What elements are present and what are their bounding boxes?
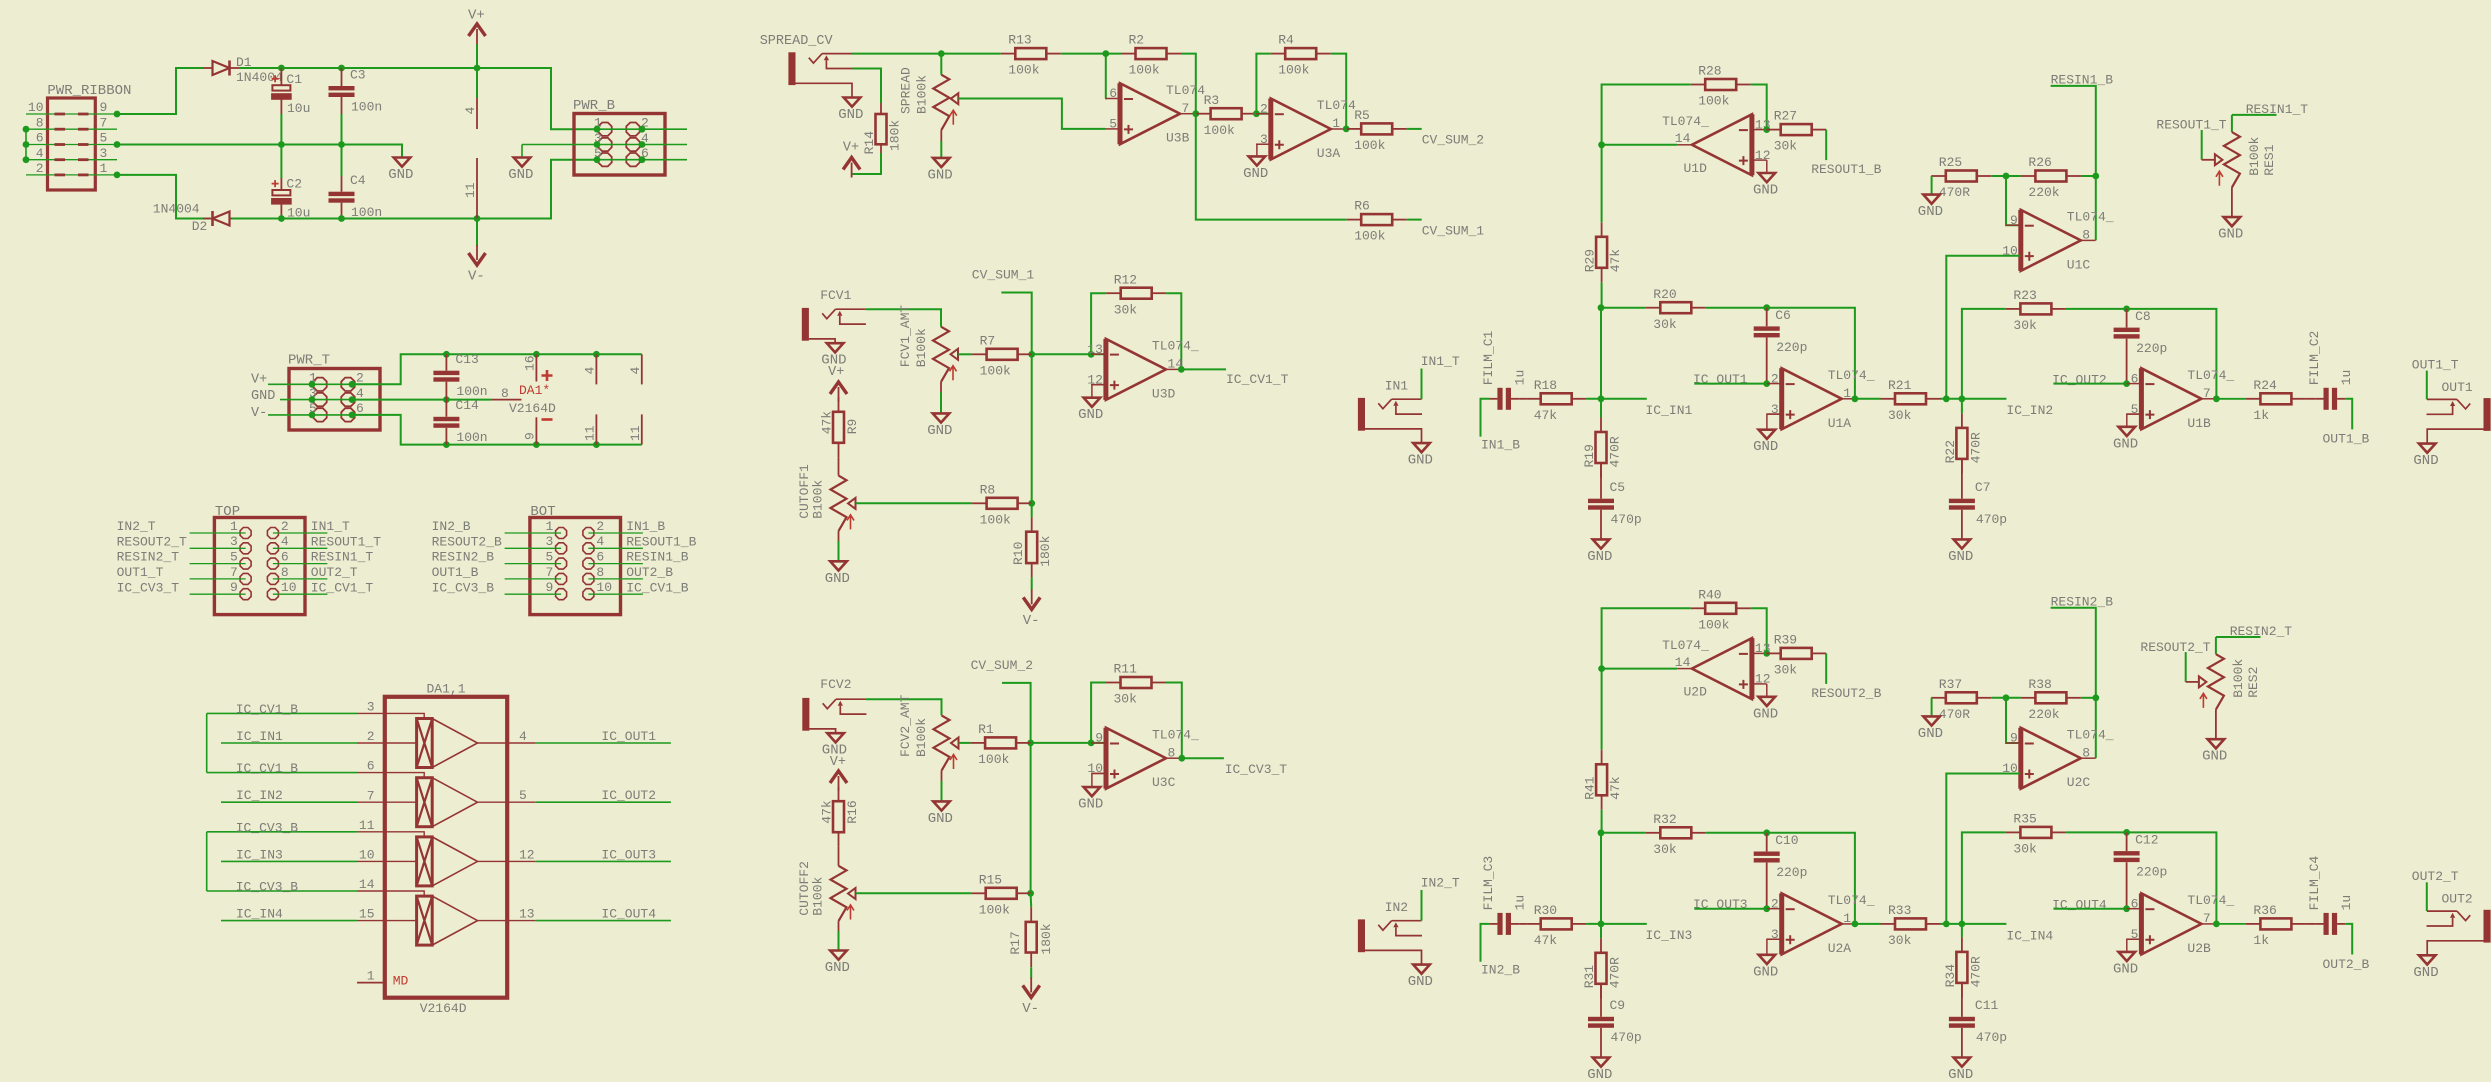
wire IC_OUT1 <box>536 742 671 744</box>
svg-text:30k: 30k <box>1774 139 1798 154</box>
svg-text:R7: R7 <box>980 333 996 348</box>
wire rail to TL074 pin4 stub <box>476 68 478 98</box>
svg-text:GND: GND <box>1078 797 1103 813</box>
svg-text:470R: 470R <box>1939 185 1970 200</box>
svg-text:GND: GND <box>2113 961 2138 977</box>
wire pot to gnd <box>2215 710 2217 740</box>
svg-text:IC_CV1_B: IC_CV1_B <box>626 580 689 595</box>
svg-text:U2B: U2B <box>2187 941 2211 956</box>
resistor R17 180k <box>1030 907 1032 922</box>
svg-text:3: 3 <box>230 534 238 549</box>
svg-text:R16: R16 <box>845 800 860 823</box>
svg-text:IC_IN4: IC_IN4 <box>2006 928 2053 943</box>
wire to IC_IN_b junction <box>1941 923 2007 925</box>
supply V+ <box>830 382 847 394</box>
resistor R10 180k <box>1031 517 1033 531</box>
connector jack FCV1 <box>802 308 809 341</box>
wire R12 feedback left <box>1091 293 1106 354</box>
svg-text:R19: R19 <box>1582 444 1597 467</box>
resistor R35 30k <box>2006 831 2021 833</box>
svg-text:U2C: U2C <box>2067 775 2091 790</box>
svg-text:12: 12 <box>1755 148 1771 163</box>
capacitor C8 220p <box>2114 328 2140 332</box>
wire pin10 left down <box>1946 256 2020 399</box>
VCA cell 2 <box>417 778 433 827</box>
wire junction up to integrator row <box>1600 308 1602 399</box>
svg-text:R3: R3 <box>1204 93 1220 108</box>
svg-text:7: 7 <box>230 565 238 580</box>
svg-text:C2: C2 <box>286 177 302 192</box>
wire gnd left <box>1930 697 1932 699</box>
svg-text:100k: 100k <box>1354 138 1385 153</box>
supply V- bottom <box>476 219 478 247</box>
ground <box>2119 952 2136 961</box>
wire resin_b down <box>2051 608 2096 698</box>
wire R10 column <box>1031 503 1033 517</box>
svg-text:RESOUT2_B: RESOUT2_B <box>1811 686 1881 701</box>
svg-text:R37: R37 <box>1939 677 1962 692</box>
svg-text:OUT1_B: OUT1_B <box>432 565 479 580</box>
svg-text:47k: 47k <box>1608 776 1623 800</box>
op-amp U2A <box>1782 893 1842 954</box>
ground <box>2208 739 2225 748</box>
svg-text:IN2: IN2 <box>1385 900 1408 915</box>
pin out 13 <box>478 920 536 922</box>
wire R9 to pot <box>838 457 840 475</box>
svg-text:6: 6 <box>36 131 44 146</box>
ground <box>830 951 847 960</box>
svg-text:IC_OUT1: IC_OUT1 <box>1693 372 1748 387</box>
wire R10 to V- <box>1031 577 1033 590</box>
svg-text:IN1_B: IN1_B <box>626 519 665 534</box>
svg-text:TL074_: TL074_ <box>1152 727 1199 742</box>
pin cv 6 <box>357 773 424 778</box>
svg-text:IC_OUT4: IC_OUT4 <box>601 907 656 922</box>
svg-text:6: 6 <box>2131 896 2139 911</box>
svg-text:13: 13 <box>519 907 535 922</box>
wire pin12 gnd <box>1766 160 1768 173</box>
svg-text:RESOUT2_T: RESOUT2_T <box>2140 640 2210 655</box>
svg-text:470R: 470R <box>1608 957 1623 988</box>
svg-text:R18: R18 <box>1534 378 1557 393</box>
svg-text:180k: 180k <box>888 120 903 151</box>
svg-text:100k: 100k <box>1354 229 1385 244</box>
svg-text:470p: 470p <box>1611 1030 1642 1045</box>
svg-text:6: 6 <box>281 550 289 565</box>
svg-text:30k: 30k <box>2013 842 2037 857</box>
svg-text:U2D: U2D <box>1683 685 1707 700</box>
svg-text:R36: R36 <box>2253 903 2276 918</box>
svg-text:3: 3 <box>545 534 553 549</box>
resistor R3 100k <box>1196 113 1211 115</box>
capacitor C7 470p <box>1949 499 1975 503</box>
svg-text:5: 5 <box>100 131 108 146</box>
capacitor C12 220p <box>2114 851 2140 855</box>
wire pot to gnd <box>941 771 943 781</box>
svg-text:5: 5 <box>545 550 553 565</box>
svg-text:OUT2_B: OUT2_B <box>626 565 673 580</box>
wire IC_CV1_B bracket <box>207 712 357 714</box>
svg-text:100k: 100k <box>1008 63 1039 78</box>
wire c3 to mid rail <box>341 114 343 145</box>
svg-text:9: 9 <box>100 100 108 115</box>
svg-text:8: 8 <box>2082 228 2090 243</box>
svg-text:CV_SUM_2: CV_SUM_2 <box>971 658 1033 673</box>
svg-text:TL074_: TL074_ <box>1662 638 1709 653</box>
svg-text:V-: V- <box>251 406 267 421</box>
pin cv 3 <box>357 713 424 718</box>
svg-text:TL074_: TL074_ <box>1828 893 1875 908</box>
wire junction up to integrator row <box>1600 833 1602 924</box>
wire U3B out down to R6 <box>1196 114 1347 220</box>
svg-text:7: 7 <box>1182 101 1190 116</box>
wire wiper to R15 <box>856 892 972 894</box>
wire to resin junction <box>2081 175 2096 177</box>
svg-text:R35: R35 <box>2013 812 2036 827</box>
svg-text:4: 4 <box>628 367 643 375</box>
svg-text:FCV2: FCV2 <box>820 677 851 692</box>
svg-text:IC_CV1_T: IC_CV1_T <box>1226 372 1289 387</box>
svg-text:GND: GND <box>1587 1067 1612 1082</box>
wire R down to integrator row <box>1601 282 1603 307</box>
svg-text:8: 8 <box>281 565 289 580</box>
power pins TL074 U1 <box>595 354 597 384</box>
svg-text:R1: R1 <box>978 722 994 737</box>
supply V- <box>1023 985 1040 997</box>
svg-text:V+: V+ <box>830 755 846 770</box>
wire pot to gnd <box>940 130 942 141</box>
VCA cell 4 <box>417 896 433 945</box>
wire IC_IN3 <box>221 860 357 862</box>
svg-text:2: 2 <box>1771 896 1779 911</box>
wire tip to pot <box>852 53 941 55</box>
resistor R7 100k <box>972 353 987 355</box>
svg-text:CV_SUM_1: CV_SUM_1 <box>972 268 1035 283</box>
resistor R34 470R <box>1961 937 1963 952</box>
wire jack sleeve <box>796 83 853 97</box>
wire IN_B to film cap <box>1481 924 1490 962</box>
wire RESIN1_T <box>273 563 328 565</box>
svg-text:1u: 1u <box>2339 895 2354 911</box>
svg-text:DA1*: DA1* <box>519 383 550 398</box>
op-amp U2B <box>2141 893 2201 954</box>
ground <box>827 733 844 742</box>
wire to C_int2 junction <box>2066 309 2217 399</box>
capacitor C8 220p <box>2126 309 2128 328</box>
wire RESOUT2_B <box>505 547 561 549</box>
wire resin_b down <box>2051 86 2096 176</box>
svg-text:GND: GND <box>1918 204 1943 220</box>
resistor R27 30k <box>1766 129 1781 131</box>
connector jack FCV2 <box>802 698 809 731</box>
svg-text:4: 4 <box>583 367 598 375</box>
pin in 7 <box>357 801 417 803</box>
resistor R20 30k <box>1646 307 1661 309</box>
svg-text:IC_IN2: IC_IN2 <box>2006 403 2053 418</box>
svg-text:IC_CV1_B: IC_CV1_B <box>236 761 299 776</box>
svg-text:PWR_B: PWR_B <box>573 98 615 114</box>
wire to C_int2 junction <box>2066 832 2217 924</box>
ground <box>1249 156 1266 165</box>
pin cv 14 <box>357 891 424 896</box>
svg-text:R12: R12 <box>1114 272 1137 287</box>
svg-text:R11: R11 <box>1114 662 1138 677</box>
svg-text:GND: GND <box>1948 549 1973 565</box>
svg-text:IC_CV3_B: IC_CV3_B <box>432 580 495 595</box>
wire pin5 gnd <box>2127 939 2141 952</box>
svg-text:FCV2_AMT: FCV2_AMT <box>898 694 913 757</box>
svg-text:IC_OUT2: IC_OUT2 <box>2052 372 2107 387</box>
wire junction down to R_shunt top <box>1601 669 1603 750</box>
svg-text:B100k: B100k <box>811 480 826 519</box>
capacitor C6 220p <box>1754 326 1780 330</box>
wire to resin junction <box>2081 697 2096 699</box>
resistor R32 30k <box>1646 832 1661 834</box>
pin 4 power stub <box>476 98 478 129</box>
wire U3D out IC_CV1_T <box>1181 368 1226 370</box>
svg-text:11: 11 <box>359 818 375 833</box>
svg-text:8: 8 <box>501 386 509 401</box>
wire fb right <box>1751 85 1767 130</box>
pin in 10 <box>357 860 417 862</box>
svg-text:GND: GND <box>2202 749 2227 765</box>
wire gnd bus pins 8-6-4 <box>25 129 27 160</box>
svg-text:U3D: U3D <box>1152 386 1176 401</box>
svg-text:R39: R39 <box>1774 632 1797 647</box>
wire to C_int1 junction <box>1706 308 1855 399</box>
ground <box>1593 539 1610 548</box>
svg-text:30k: 30k <box>1114 692 1138 707</box>
svg-text:100n: 100n <box>456 430 487 445</box>
ground <box>1759 173 1776 182</box>
wire fcv1 tip to pot <box>865 309 941 327</box>
svg-text:IC_OUT3: IC_OUT3 <box>1693 897 1748 912</box>
svg-text:U1D: U1D <box>1683 161 1707 176</box>
svg-text:30k: 30k <box>2013 318 2037 333</box>
resistor R21 30k <box>1855 398 1881 400</box>
svg-text:C12: C12 <box>2135 833 2158 848</box>
wire film out <box>2345 399 2352 430</box>
svg-text:14: 14 <box>1675 131 1691 146</box>
wire resin_t to pot <box>2232 114 2277 116</box>
svg-text:4: 4 <box>36 146 44 161</box>
wire junction down to U3B pin6 <box>1104 54 1106 99</box>
wire R17 to V- <box>1030 967 1032 978</box>
wire R to C <box>1600 463 1602 499</box>
ground <box>1759 697 1776 706</box>
svg-text:OUT1_T: OUT1_T <box>2412 357 2459 372</box>
supply V+ <box>469 24 486 36</box>
wire IN2_T <box>190 532 246 534</box>
svg-text:R26: R26 <box>2028 155 2051 170</box>
svg-text:OUT2_T: OUT2_T <box>2412 869 2459 884</box>
svg-text:5: 5 <box>1109 117 1117 132</box>
wire IC_CV1_B <box>588 593 643 595</box>
resistor R16 47k <box>838 787 840 802</box>
wire film out <box>2345 924 2352 955</box>
svg-text:C8: C8 <box>2135 309 2151 324</box>
wire film to R_in <box>1519 923 1526 925</box>
ground <box>394 158 411 167</box>
svg-text:100k: 100k <box>980 512 1011 527</box>
svg-text:OUT2: OUT2 <box>2442 892 2473 907</box>
resistor R31 470R <box>1600 924 1602 938</box>
diode body <box>213 61 230 75</box>
wire IC_CV3_T <box>190 593 246 595</box>
svg-text:V+: V+ <box>468 8 485 24</box>
wire R to C <box>1961 459 1963 499</box>
wire junction to U3D pin13 <box>1032 353 1106 355</box>
svg-text:OUT1_B: OUT1_B <box>2323 432 2370 447</box>
svg-text:4: 4 <box>463 107 478 115</box>
wire R3 junction up to R4 <box>1256 54 1270 114</box>
svg-text:DA1,1: DA1,1 <box>427 681 466 696</box>
resistor R23 30k <box>2006 308 2021 310</box>
wire U3C out IC_CV3_T <box>1182 757 1224 759</box>
wire wiper to R1 <box>959 742 971 744</box>
op-amp U3A <box>1271 99 1331 160</box>
wire U3A pin3 to gnd <box>1257 144 1270 156</box>
svg-text:5: 5 <box>519 788 527 803</box>
wire pot top junction to R13 <box>941 53 1001 55</box>
wire RESOUT1_T <box>273 547 328 549</box>
wire pwr_t gnd row <box>280 399 312 401</box>
wire pin9 to D1 <box>117 68 203 114</box>
svg-text:RES1: RES1 <box>2262 144 2277 175</box>
svg-text:GND: GND <box>928 167 953 183</box>
wire jack sleeve <box>809 339 835 343</box>
svg-text:100n: 100n <box>456 384 487 399</box>
svg-text:10: 10 <box>281 580 297 595</box>
svg-text:1: 1 <box>1332 116 1340 131</box>
svg-text:RESOUT2_T: RESOUT2_T <box>117 534 187 549</box>
diode body <box>213 212 230 226</box>
wire RESIN1_B <box>588 563 643 565</box>
capacitor FILM_C1 1u <box>1497 388 1502 410</box>
svg-text:7: 7 <box>100 115 108 130</box>
svg-text:6: 6 <box>367 759 375 774</box>
svg-text:30k: 30k <box>1653 842 1677 857</box>
svg-text:10: 10 <box>359 848 375 863</box>
svg-text:14: 14 <box>359 877 375 892</box>
svg-text:SPREAD_CV: SPREAD_CV <box>760 34 834 49</box>
wire pin3 gnd <box>1767 939 1781 955</box>
resistor R21 30k <box>1881 398 1896 400</box>
svg-text:GND: GND <box>928 811 953 827</box>
svg-text:R22: R22 <box>1943 440 1958 463</box>
svg-text:MD: MD <box>393 974 409 989</box>
connector jack OUT1 <box>2484 398 2491 431</box>
capacitor C5 470p <box>1588 499 1614 503</box>
svg-text:220p: 220p <box>1776 865 1807 880</box>
supply V+ <box>843 158 860 170</box>
svg-text:IC_CV3_T: IC_CV3_T <box>1225 762 1288 777</box>
svg-text:220k: 220k <box>2028 185 2059 200</box>
svg-text:C13: C13 <box>455 352 478 367</box>
resistor R12 30k <box>1106 292 1121 294</box>
potentiometer body <box>2224 132 2240 187</box>
svg-text:30k: 30k <box>1114 302 1138 317</box>
capacitor C4 100n <box>329 192 355 196</box>
svg-text:16: 16 <box>523 355 538 371</box>
svg-text:TL074_: TL074_ <box>1662 114 1709 129</box>
connector jack IN1 <box>1358 398 1365 431</box>
svg-text:100k: 100k <box>1204 123 1235 138</box>
wire pot to gnd <box>940 382 942 392</box>
svg-text:R15: R15 <box>979 872 1002 887</box>
resistor R22 470R <box>1961 413 1963 428</box>
ground <box>2224 217 2241 226</box>
svg-text:220p: 220p <box>2136 865 2167 880</box>
wire R12 feedback right <box>1166 293 1181 369</box>
svg-text:CV_SUM_1: CV_SUM_1 <box>1422 224 1485 239</box>
svg-text:B100k: B100k <box>2247 136 2262 175</box>
resistor R18 47k <box>1526 398 1541 400</box>
wire R_in to junction <box>1586 398 1647 400</box>
svg-text:100k: 100k <box>1698 617 1729 632</box>
wire fb left <box>1602 608 1691 668</box>
svg-text:100k: 100k <box>980 363 1011 378</box>
ground <box>844 98 861 107</box>
svg-text:6: 6 <box>596 550 604 565</box>
svg-text:IC_OUT4: IC_OUT4 <box>2052 898 2107 913</box>
wire jack sleeve <box>1365 950 1422 964</box>
wire junction up to integrator row 2 <box>1962 309 2006 399</box>
svg-text:5: 5 <box>230 550 238 565</box>
svg-text:GND: GND <box>1753 964 1778 980</box>
svg-text:GND: GND <box>251 389 275 404</box>
svg-text:9: 9 <box>545 580 553 595</box>
pin out 5 <box>478 801 536 803</box>
ground <box>1084 398 1101 407</box>
wire R11 feedback right <box>1166 683 1182 759</box>
wire U3D pin12 gnd <box>1092 385 1106 398</box>
svg-text:IC_CV1_T: IC_CV1_T <box>311 580 374 595</box>
svg-text:10u: 10u <box>287 101 310 116</box>
wire RESIN2_B <box>505 563 561 565</box>
svg-text:TL074_: TL074_ <box>2067 727 2114 742</box>
supply V- <box>1023 597 1040 609</box>
svg-text:470p: 470p <box>1976 512 2007 527</box>
potentiometer body <box>933 75 949 130</box>
wire IC_CV3_B <box>505 593 561 595</box>
wire RESIN2_T <box>190 563 246 565</box>
wire gnd mid rail <box>117 145 402 158</box>
svg-text:13: 13 <box>1087 342 1103 357</box>
svg-text:1k: 1k <box>2253 933 2269 948</box>
svg-text:IC_OUT2: IC_OUT2 <box>601 788 656 803</box>
wire IC_OUT to pin2 <box>1694 383 1767 385</box>
svg-text:R28: R28 <box>1698 64 1721 79</box>
ground <box>1923 195 1940 204</box>
pin 11 power stub <box>476 158 478 219</box>
svg-text:220p: 220p <box>1776 340 1807 355</box>
wire R14 to V+ <box>852 153 881 174</box>
svg-text:R40: R40 <box>1698 587 1721 602</box>
ground <box>933 801 950 810</box>
svg-text:V-: V- <box>1023 613 1040 629</box>
svg-text:100k: 100k <box>1698 94 1729 109</box>
capacitor FILM_C4 1u <box>2324 913 2329 935</box>
svg-text:470R: 470R <box>1939 707 1970 722</box>
wire OUT_T to tip <box>2426 371 2428 400</box>
svg-text:7: 7 <box>545 565 553 580</box>
wire v- to bottom rail <box>352 415 642 445</box>
pin 1 MD <box>357 982 385 984</box>
resistor R6 100k <box>1347 219 1362 221</box>
svg-text:6: 6 <box>2131 371 2139 386</box>
svg-text:OUT1_T: OUT1_T <box>117 565 164 580</box>
